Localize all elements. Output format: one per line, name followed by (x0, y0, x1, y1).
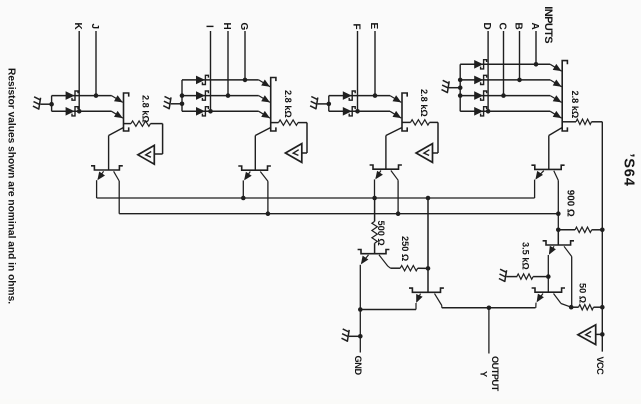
svg-text:GND: GND (353, 356, 363, 376)
svg-text:J: J (89, 24, 100, 30)
svg-text:C: C (497, 23, 508, 30)
svg-text:500 Ω: 500 Ω (376, 221, 386, 246)
svg-text:2.8 kΩ: 2.8 kΩ (141, 95, 151, 123)
svg-text:Resistor values shown are nomi: Resistor values shown are nominal and in… (6, 68, 17, 304)
svg-text:250 Ω: 250 Ω (400, 236, 410, 261)
svg-text:OUTPUT: OUTPUT (490, 356, 500, 392)
svg-text:50 Ω: 50 Ω (578, 283, 588, 303)
svg-text:A: A (529, 23, 540, 30)
svg-text:K: K (72, 23, 83, 31)
svg-text:INPUTS: INPUTS (542, 6, 554, 43)
svg-text:D: D (481, 23, 492, 30)
svg-text:G: G (238, 23, 249, 31)
svg-text:900 Ω: 900 Ω (565, 190, 576, 217)
svg-text:’S64: ’S64 (620, 153, 636, 186)
svg-text:B: B (513, 23, 524, 30)
svg-text:H: H (221, 23, 232, 30)
svg-text:VCC: VCC (595, 357, 605, 376)
svg-text:2.8 kΩ: 2.8 kΩ (283, 90, 293, 118)
svg-text:Y: Y (479, 371, 489, 377)
svg-text:3.5 kΩ: 3.5 kΩ (521, 242, 531, 270)
svg-text:F: F (351, 24, 362, 30)
svg-text:2.8 kΩ: 2.8 kΩ (570, 91, 580, 119)
svg-text:E: E (368, 23, 379, 30)
svg-text:2.8 kΩ: 2.8 kΩ (419, 89, 429, 117)
svg-text:I: I (204, 25, 215, 28)
